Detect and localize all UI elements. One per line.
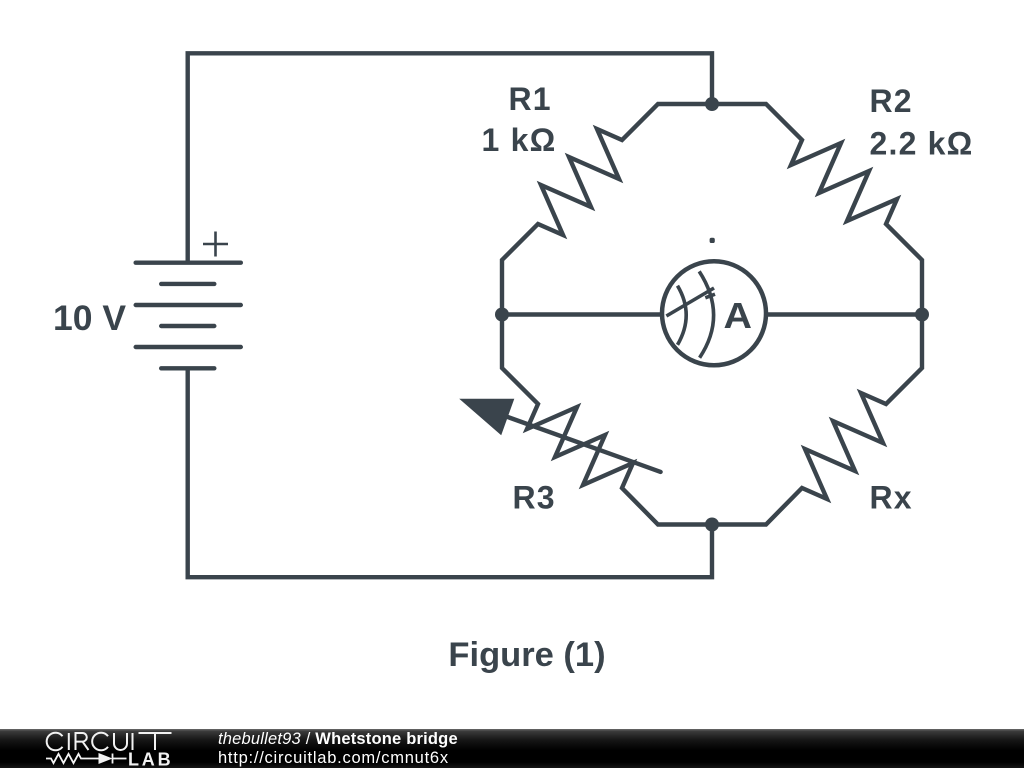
- svg-text:LAB: LAB: [128, 749, 173, 768]
- svg-text:R1: R1: [509, 81, 552, 117]
- svg-text:Figure (1): Figure (1): [448, 636, 605, 674]
- svg-text:A: A: [724, 295, 753, 336]
- svg-text:10 V: 10 V: [53, 298, 126, 338]
- svg-text:R2: R2: [870, 83, 913, 119]
- svg-text:2.2 kΩ: 2.2 kΩ: [870, 126, 974, 162]
- svg-text:1 kΩ: 1 kΩ: [482, 122, 557, 158]
- svg-text:Rx: Rx: [870, 480, 913, 516]
- svg-text:R3: R3: [513, 480, 556, 516]
